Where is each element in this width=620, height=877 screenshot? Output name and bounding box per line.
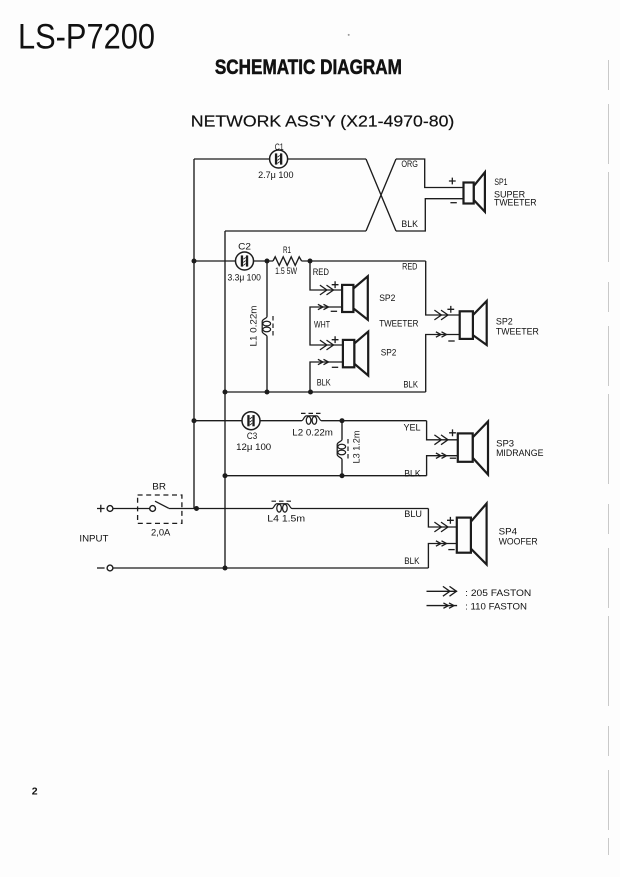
- svg-text:ORG: ORG: [401, 159, 418, 169]
- svg-text:BLU: BLU: [404, 509, 422, 519]
- svg-text:YEL: YEL: [404, 423, 421, 433]
- svg-text:WHT: WHT: [314, 320, 330, 330]
- svg-text:BLK: BLK: [401, 219, 418, 229]
- svg-text:WOOFER: WOOFER: [499, 537, 538, 547]
- svg-text:2.7μ 100: 2.7μ 100: [258, 170, 293, 180]
- svg-text:R1: R1: [283, 245, 291, 255]
- svg-text:RED: RED: [402, 262, 418, 272]
- svg-text:INPUT: INPUT: [79, 533, 108, 543]
- svg-text:SP2: SP2: [379, 293, 395, 303]
- svg-text:: 110 FASTON: : 110 FASTON: [465, 602, 527, 612]
- svg-text:L4 1.5m: L4 1.5m: [267, 514, 305, 524]
- svg-text:TWEETER: TWEETER: [494, 198, 537, 208]
- svg-text:C2: C2: [238, 241, 251, 251]
- svg-text:C3: C3: [247, 431, 257, 441]
- svg-text:12μ 100: 12μ 100: [236, 442, 271, 452]
- svg-text:3.3μ 100: 3.3μ 100: [228, 272, 261, 282]
- svg-text:L3 1.2m: L3 1.2m: [352, 430, 362, 463]
- svg-text:LS-P7200: LS-P7200: [18, 17, 155, 57]
- svg-text:L1 0.22m: L1 0.22m: [249, 305, 259, 346]
- svg-text:BLK: BLK: [404, 469, 421, 479]
- svg-text:SCHEMATIC DIAGRAM: SCHEMATIC DIAGRAM: [215, 55, 402, 79]
- svg-text:C1: C1: [275, 142, 284, 152]
- svg-text:SP2: SP2: [496, 317, 513, 327]
- svg-text:1.5 5W: 1.5 5W: [275, 266, 297, 276]
- svg-text:2,0A: 2,0A: [151, 528, 171, 538]
- svg-text:RED: RED: [313, 267, 330, 277]
- svg-text:BLK: BLK: [317, 377, 332, 387]
- svg-text:NETWORK ASS'Y (X21-4970-80): NETWORK ASS'Y (X21-4970-80): [191, 113, 455, 130]
- svg-text:BLK: BLK: [403, 380, 418, 390]
- svg-text:L2 0.22m: L2 0.22m: [292, 428, 333, 438]
- svg-text:SP2: SP2: [381, 348, 397, 358]
- svg-text:TWEETER: TWEETER: [496, 326, 539, 336]
- svg-text:MIDRANGE: MIDRANGE: [496, 448, 543, 458]
- svg-text:BR: BR: [152, 481, 166, 491]
- svg-text:SP4: SP4: [499, 527, 517, 537]
- svg-text:BLK: BLK: [404, 556, 420, 566]
- svg-text:SP1: SP1: [494, 177, 507, 187]
- svg-text:2: 2: [32, 786, 38, 798]
- svg-text:TWEETER: TWEETER: [379, 318, 419, 328]
- svg-text:: 205 FASTON: : 205 FASTON: [465, 588, 531, 598]
